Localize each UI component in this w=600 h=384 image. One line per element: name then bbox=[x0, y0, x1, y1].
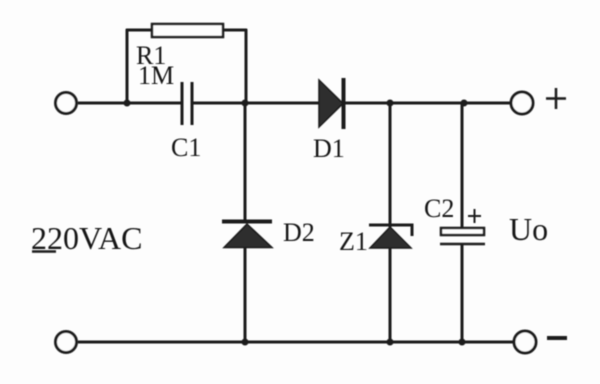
svg-text:D2: D2 bbox=[283, 218, 315, 247]
svg-text:1M: 1M bbox=[138, 61, 174, 90]
svg-text:Z1: Z1 bbox=[339, 227, 368, 256]
svg-text:D1: D1 bbox=[313, 134, 345, 163]
svg-text:C1: C1 bbox=[171, 133, 201, 162]
svg-text:Uo: Uo bbox=[509, 211, 548, 247]
svg-text:C2: C2 bbox=[424, 194, 454, 223]
